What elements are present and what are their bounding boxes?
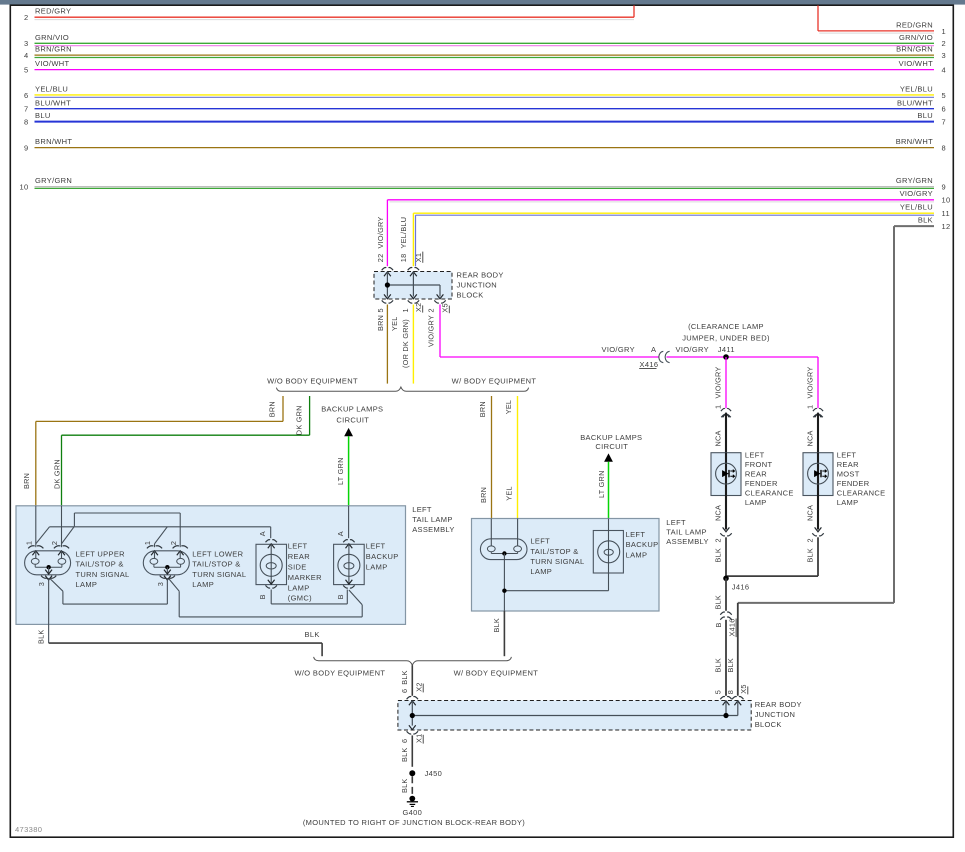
svg-text:LEFT LOWER: LEFT LOWER	[192, 550, 243, 559]
svg-text:BACKUP: BACKUP	[366, 552, 399, 561]
bus pin1 lamps to side marker A	[50, 526, 271, 528]
arrow backup lamps circuit (box1)	[344, 428, 353, 436]
svg-text:BLK: BLK	[37, 629, 46, 644]
wire YEL/BLU (right 11) horizontal	[413, 212, 934, 214]
svg-text:TURN SIGNAL: TURN SIGNAL	[530, 557, 584, 566]
wire pin2 lower lamp drop	[179, 513, 181, 547]
svg-text:CLEARANCE: CLEARANCE	[745, 489, 794, 498]
wire YEL/BLU vertical drop to junction block	[412, 213, 414, 266]
lamp rect LEFT	[334, 544, 365, 584]
lamp internal wiring	[153, 564, 155, 567]
wire BRN/GRN (left 4 / right 3)	[35, 54, 935, 56]
svg-text:7: 7	[24, 105, 29, 114]
svg-text:BLK: BLK	[806, 548, 815, 563]
lower block entry connector pin 5	[720, 697, 731, 700]
svg-text:18: 18	[399, 254, 408, 263]
svg-text:BLK: BLK	[726, 658, 735, 673]
svg-text:W/ BODY EQUIPMENT: W/ BODY EQUIPMENT	[454, 669, 539, 678]
svg-text:2: 2	[806, 538, 815, 542]
svg-text:2: 2	[169, 541, 178, 545]
wire NCA below U3 left rear most fender clearance lamp	[817, 496, 819, 530]
wire LT GRN into box1	[348, 436, 350, 506]
wire side marker B down to bus	[270, 590, 272, 604]
wire VIO/GRY continues to J411	[667, 356, 819, 358]
svg-text:X5: X5	[441, 303, 450, 312]
svg-text:REAR BODY: REAR BODY	[755, 700, 802, 709]
svg-text:J450: J450	[425, 769, 443, 778]
wire VIO/GRY (right 10) horizontal	[387, 199, 934, 201]
svg-text:REAR: REAR	[745, 470, 767, 479]
svg-text:6: 6	[400, 689, 409, 693]
upper block pin 2 exit	[437, 294, 444, 298]
svg-text:BLOCK: BLOCK	[457, 291, 484, 300]
lamp pin3 connector	[45, 570, 52, 574]
connector 2 BLK below U3 left rear most fender clearance lamp	[815, 527, 822, 531]
svg-text:LAMP: LAMP	[192, 580, 214, 589]
svg-text:FRONT: FRONT	[745, 460, 773, 469]
ground bus between lamps	[63, 603, 167, 605]
wire VIO/WHT (left 5 / right 4)	[35, 69, 935, 71]
rear body junction block (lower)	[398, 701, 751, 731]
lamp pin1 connector	[147, 546, 162, 549]
svg-text:VIO/GRY: VIO/GRY	[602, 345, 635, 354]
svg-text:TURN SIGNAL: TURN SIGNAL	[76, 570, 130, 579]
svg-text:REAR: REAR	[288, 552, 310, 561]
tap diagonal pin1 upper lamp	[36, 527, 50, 544]
tap diagonal pin1 lower lamp	[155, 527, 168, 544]
wire LT GRN pin into backup (box2)	[608, 519, 610, 556]
svg-text:NCA: NCA	[806, 505, 815, 521]
lamp internal wiring	[34, 564, 36, 567]
svg-text:LEFT: LEFT	[366, 542, 386, 551]
left tail lamp assembly box (w/ body equipment)	[472, 519, 660, 612]
svg-text:VIO/GRY: VIO/GRY	[806, 366, 815, 398]
svg-text:REAR: REAR	[837, 460, 859, 469]
svg-text:LAMP: LAMP	[530, 567, 552, 576]
wire GRN/VIO (left 3 / right 2)	[35, 42, 935, 44]
svg-text:BLK: BLK	[713, 658, 722, 673]
lamp pin2 connector	[54, 546, 69, 549]
svg-text:DK GRN: DK GRN	[52, 459, 61, 489]
svg-text:3: 3	[24, 39, 29, 48]
svg-text:BLU/WHT: BLU/WHT	[897, 98, 933, 107]
svg-text:6: 6	[400, 739, 409, 743]
svg-text:CIRCUIT: CIRCUIT	[595, 442, 628, 451]
svg-text:X1: X1	[414, 253, 423, 262]
svg-text:(MOUNTED TO RIGHT OF JUNCTION: (MOUNTED TO RIGHT OF JUNCTION BLOCK-REAR…	[303, 818, 525, 827]
svg-text:22: 22	[376, 254, 385, 263]
svg-text:LEFT: LEFT	[666, 518, 686, 527]
wire RED/GRY (left 2) horizontal	[35, 16, 635, 18]
svg-text:RED/GRY: RED/GRY	[35, 7, 71, 16]
svg-text:1: 1	[24, 541, 33, 545]
lamp pin A connector	[343, 540, 354, 543]
splice J416 dot	[723, 576, 729, 582]
wire BLK dashed to ground	[411, 776, 413, 796]
svg-text:MARKER: MARKER	[288, 573, 322, 582]
svg-text:VIO/GRY: VIO/GRY	[900, 189, 933, 198]
svg-text:ASSEMBLY: ASSEMBLY	[666, 537, 709, 546]
upper block pin 22 entry connector	[382, 268, 393, 271]
lamp filaments (box2)	[487, 546, 495, 552]
wire DK GRN branch w/o body	[309, 396, 311, 435]
ground wire from backup lamp (box2)	[608, 555, 610, 591]
lamp stadium body	[25, 551, 71, 575]
lamp filament oval (box2 backup)	[604, 549, 613, 555]
svg-text:BACKUP LAMPS: BACKUP LAMPS	[580, 433, 642, 442]
wire RED/GRN (right 1) vertical from top border	[817, 5, 819, 31]
svg-text:3: 3	[942, 51, 947, 60]
lamp pin1 connector	[28, 546, 43, 549]
svg-text:X1: X1	[415, 734, 424, 743]
svg-text:W/O BODY EQUIPMENT: W/O BODY EQUIPMENT	[294, 669, 385, 678]
svg-text:473380: 473380	[15, 825, 42, 834]
svg-text:2: 2	[713, 538, 722, 542]
svg-text:1: 1	[143, 541, 152, 545]
svg-text:VIO/GRY: VIO/GRY	[376, 216, 385, 248]
svg-text:G400: G400	[402, 808, 422, 817]
svg-text:A: A	[651, 345, 656, 354]
wire BLK out of box1	[49, 642, 322, 644]
bus pin2 lamps	[62, 526, 75, 544]
wire VIO/GRY jumper to right clearance lamp	[817, 357, 819, 408]
lower block internal wires	[411, 701, 413, 726]
svg-text:1: 1	[942, 27, 947, 36]
svg-text:VIO/WHT: VIO/WHT	[899, 59, 933, 68]
svg-text:YEL/BLU: YEL/BLU	[900, 203, 933, 212]
svg-text:X416: X416	[640, 360, 659, 369]
wire YEL from block pin 1 down to brace	[412, 305, 414, 384]
svg-text:JUMPER, UNDER BED): JUMPER, UNDER BED)	[682, 334, 770, 343]
svg-text:BRN/GRN: BRN/GRN	[896, 45, 933, 54]
connector X416 inline on VIO/GRY	[659, 351, 664, 362]
wire YEL pin into lamp (box2)	[517, 519, 519, 546]
upper block pin 1 exit	[410, 294, 417, 298]
svg-text:NCA: NCA	[806, 430, 815, 446]
splice J411 dot	[723, 354, 729, 360]
brace W/O / W/ BODY EQUIPMENT (lower)	[314, 657, 512, 665]
wire NCA into U2 left front rear fender clearance lamp	[725, 413, 727, 453]
ground bus (box2)	[504, 590, 608, 592]
svg-text:BLU: BLU	[917, 111, 933, 120]
svg-text:TAIL LAMP: TAIL LAMP	[666, 528, 706, 537]
svg-text:BRN: BRN	[267, 401, 276, 417]
wire BLK from right clearance lamp	[817, 537, 819, 576]
svg-text:BRN/WHT: BRN/WHT	[35, 137, 72, 146]
bus marker B to backup B	[271, 603, 347, 605]
lamp pin A connector	[266, 540, 277, 543]
lamp rect LEFT	[256, 544, 287, 584]
svg-text:9: 9	[942, 183, 947, 192]
svg-text:BLU: BLU	[35, 111, 51, 120]
wire BLK from left clearance lamp to J416	[725, 537, 727, 578]
svg-text:BRN: BRN	[22, 473, 31, 489]
svg-text:FENDER: FENDER	[745, 479, 778, 488]
wire BLK X416 to junction block pin 5	[725, 620, 727, 696]
svg-text:CLEARANCE: CLEARANCE	[837, 489, 886, 498]
svg-text:A: A	[336, 531, 345, 536]
svg-text:1: 1	[401, 308, 410, 312]
svg-text:B: B	[258, 594, 267, 599]
wire BLK vertical into junction block pin 8	[737, 603, 739, 696]
svg-text:YEL: YEL	[504, 400, 513, 415]
svg-text:YEL/BLU: YEL/BLU	[900, 85, 933, 94]
svg-text:BLOCK: BLOCK	[755, 720, 782, 729]
wire side marker A from bus	[270, 527, 272, 538]
svg-text:YEL/BLU: YEL/BLU	[35, 85, 68, 94]
svg-text:BRN: BRN	[376, 315, 385, 331]
lower block exit connector pin 6	[409, 725, 416, 729]
upper block junction dot	[385, 282, 390, 287]
lamp circle	[260, 554, 282, 576]
svg-text:BRN/GRN: BRN/GRN	[35, 45, 72, 54]
svg-text:TAIL LAMP: TAIL LAMP	[412, 515, 452, 524]
lower block entry connector pin 6	[407, 697, 418, 700]
svg-text:LAMP: LAMP	[76, 580, 98, 589]
svg-text:YEL: YEL	[390, 316, 399, 331]
svg-text:BLK: BLK	[918, 216, 933, 225]
svg-text:2: 2	[427, 308, 436, 312]
svg-text:4: 4	[24, 51, 29, 60]
svg-text:BRN: BRN	[478, 401, 487, 417]
wire VIO/GRY jumper drop left clearance lamp	[725, 357, 727, 408]
lamp filament oval	[344, 563, 354, 569]
svg-text:NCA: NCA	[713, 430, 722, 446]
svg-text:5: 5	[942, 91, 947, 100]
svg-text:GRY/GRN: GRY/GRN	[35, 176, 72, 185]
lamp box U2 left front rear fender clearance lamp	[711, 453, 741, 496]
svg-text:8: 8	[24, 118, 29, 127]
connector 2 BLK below U2 left front rear fender clearance lamp	[723, 527, 730, 531]
lamp filament oval	[266, 563, 276, 569]
svg-text:CIRCUIT: CIRCUIT	[336, 416, 369, 425]
lamp circle U2 left front rear fender clearance lamp	[716, 463, 737, 484]
wire BRN from block pin 5 down to brace	[386, 305, 388, 384]
wire YEL/BLU (left 6 / right 5)	[35, 94, 935, 96]
svg-text:JUNCTION: JUNCTION	[755, 710, 796, 719]
svg-text:X5: X5	[739, 684, 748, 693]
svg-text:X416: X416	[727, 618, 736, 636]
svg-text:NCA: NCA	[713, 505, 722, 521]
svg-text:BLK: BLK	[400, 778, 409, 793]
svg-text:2: 2	[50, 541, 59, 545]
svg-text:DK GRN: DK GRN	[295, 405, 304, 435]
svg-text:BLK: BLK	[713, 595, 722, 610]
wire backup lamp A from LT GRN	[348, 506, 350, 538]
svg-text:TURN SIGNAL: TURN SIGNAL	[192, 570, 246, 579]
lamp box U3 left rear most fender clearance lamp	[803, 453, 833, 496]
lamp pin2 connector	[173, 546, 188, 549]
svg-text:10: 10	[942, 196, 951, 205]
svg-text:YEL/BLU: YEL/BLU	[399, 217, 408, 249]
lamp circle	[338, 554, 360, 576]
lamp stadium body	[143, 551, 189, 575]
svg-text:11: 11	[942, 209, 950, 218]
svg-text:5: 5	[713, 690, 722, 694]
svg-text:B: B	[336, 594, 345, 599]
svg-text:1: 1	[806, 405, 815, 409]
lamp tail/stop & turn signal (box2) stadium	[480, 539, 527, 560]
lamp pin B connector	[346, 580, 353, 584]
wire VIO/GRY from block pin 2	[439, 305, 441, 358]
svg-text:BLK: BLK	[305, 630, 320, 639]
svg-text:J416: J416	[732, 583, 750, 592]
wire pin1 upper lamp from box top	[35, 506, 37, 547]
svg-text:12: 12	[942, 222, 951, 231]
svg-text:FENDER: FENDER	[837, 479, 870, 488]
svg-text:X2: X2	[414, 303, 423, 312]
svg-text:VIO/GRY: VIO/GRY	[427, 315, 436, 347]
ground wire upper lamp pin3 down	[48, 578, 50, 643]
svg-text:LEFT: LEFT	[412, 505, 432, 514]
upper block internal wires	[386, 272, 388, 297]
svg-text:10: 10	[19, 183, 28, 192]
lamp filaments	[150, 558, 158, 564]
svg-text:2: 2	[24, 13, 29, 22]
svg-text:X2: X2	[415, 682, 424, 691]
svg-text:BLK: BLK	[713, 548, 722, 563]
lower block junction dots	[410, 713, 415, 718]
tap diagonal pin3 lower lamp	[169, 579, 180, 592]
wire BRN/WHT (left 9 / right 8)	[35, 147, 935, 149]
wire BRN branch w/o body	[282, 396, 284, 421]
svg-text:6: 6	[24, 91, 29, 100]
tap diagonal pin3 upper lamp	[50, 579, 63, 592]
LED symbol U3 left rear most fender clearance lamp	[814, 470, 821, 477]
upper block pin 18 entry connector	[408, 268, 419, 271]
lamp circle U3 left rear most fender clearance lamp	[808, 463, 829, 484]
svg-text:4: 4	[942, 66, 947, 75]
svg-text:BACKUP LAMPS: BACKUP LAMPS	[321, 404, 383, 413]
wire RED/GRN (right 1) horizontal	[818, 30, 934, 32]
svg-text:BLK: BLK	[400, 747, 409, 762]
lamp pin3 connector	[164, 570, 171, 574]
svg-text:TAIL/STOP &: TAIL/STOP &	[530, 547, 578, 556]
svg-text:LEFT: LEFT	[288, 542, 308, 551]
wire VIO/GRY vertical drop to junction block	[386, 200, 388, 266]
svg-text:3: 3	[37, 582, 46, 586]
svg-text:LAMP: LAMP	[626, 550, 648, 559]
svg-text:LT GRN: LT GRN	[336, 457, 345, 485]
wire BRN branch w/ body	[491, 396, 493, 519]
wire NCA into U3 left rear most fender clearance lamp	[817, 413, 819, 453]
brace W/O / W/ BODY EQUIPMENT (upper)	[276, 387, 528, 391]
left tail lamp assembly box (w/o body equipment)	[16, 506, 406, 625]
wire pin2 upper lamp from box top	[61, 506, 63, 547]
arrow backup lamps circuit (box2)	[604, 453, 613, 461]
wire BRN pin into lamp (box2)	[490, 519, 492, 546]
svg-text:(OR DK GRN): (OR DK GRN)	[401, 319, 410, 368]
connector X416 inline on BLK	[720, 612, 731, 615]
svg-text:BLU/WHT: BLU/WHT	[35, 98, 71, 107]
svg-text:8: 8	[942, 144, 947, 153]
svg-text:YEL: YEL	[505, 486, 514, 501]
svg-text:5: 5	[24, 66, 29, 75]
svg-text:BACKUP: BACKUP	[626, 540, 659, 549]
wire BLU/WHT (left 7 / right 6)	[35, 108, 935, 110]
ground wire from tail lamp (box2)	[503, 554, 505, 611]
svg-text:JUNCTION: JUNCTION	[457, 281, 498, 290]
lamp circle (box2 backup)	[598, 541, 620, 563]
svg-text:9: 9	[24, 144, 29, 153]
svg-text:SIDE: SIDE	[288, 563, 307, 572]
svg-text:LAMP: LAMP	[745, 498, 767, 507]
svg-text:GRN/VIO: GRN/VIO	[35, 33, 69, 42]
svg-text:B: B	[714, 622, 723, 627]
wire BLK lower horizontal to junction block	[738, 602, 894, 604]
wire NCA below U2 left front rear fender clearance lamp	[725, 496, 727, 530]
lamp internal ground (box2)	[490, 552, 492, 554]
svg-text:BLK: BLK	[492, 618, 501, 633]
svg-text:MOST: MOST	[837, 470, 860, 479]
svg-text:LT GRN: LT GRN	[597, 470, 606, 498]
svg-text:LEFT: LEFT	[530, 537, 550, 546]
svg-text:3: 3	[156, 582, 165, 586]
svg-text:VIO/GRY: VIO/GRY	[713, 366, 722, 398]
svg-text:LAMP: LAMP	[366, 563, 388, 572]
svg-text:LEFT: LEFT	[626, 530, 646, 539]
clearance lamp U2 left front rear fender clearance lamp connector from VIO/GRY	[721, 408, 731, 411]
svg-text:LEFT: LEFT	[837, 450, 857, 459]
clearance lamp U3 left rear most fender clearance lamp connector from VIO/GRY	[813, 408, 823, 411]
svg-text:J411: J411	[718, 345, 735, 354]
lamp pin B connector	[268, 580, 275, 584]
LED symbol U2 left front rear fender clearance lamp	[722, 470, 729, 477]
svg-text:VIO/WHT: VIO/WHT	[35, 59, 69, 68]
svg-text:BRN/WHT: BRN/WHT	[896, 137, 933, 146]
svg-text:(GMC): (GMC)	[288, 594, 312, 603]
wire RED/GRY vertical to top border	[633, 5, 635, 17]
splice J450 dot	[409, 770, 415, 776]
wire BLK from lower block to J450	[411, 735, 413, 766]
svg-text:TAIL/STOP &: TAIL/STOP &	[192, 560, 240, 569]
svg-text:TAIL/STOP &: TAIL/STOP &	[76, 560, 124, 569]
wire GRY/GRN (left 10 / right 9)	[35, 186, 935, 188]
svg-text:BLK: BLK	[400, 670, 409, 685]
rear body junction block (upper)	[374, 272, 452, 300]
svg-text:(CLEARANCE LAMP: (CLEARANCE LAMP	[688, 322, 764, 331]
svg-text:BRN: BRN	[479, 487, 488, 503]
tap diagonal backup lamp B	[349, 590, 362, 605]
lower block entry connector pin 8	[732, 697, 743, 700]
svg-text:LEFT UPPER: LEFT UPPER	[76, 550, 126, 559]
wire BLK right-edge vertical	[893, 226, 895, 603]
wire YEL branch w/ body	[517, 396, 519, 519]
svg-text:W/ BODY EQUIPMENT: W/ BODY EQUIPMENT	[452, 376, 537, 385]
svg-text:5: 5	[376, 308, 385, 312]
top browser bar	[0, 0, 965, 5]
svg-text:A: A	[258, 531, 267, 536]
svg-text:REAR BODY: REAR BODY	[457, 271, 504, 280]
svg-text:2: 2	[942, 39, 947, 48]
svg-text:LAMP: LAMP	[837, 498, 859, 507]
wire BLK J416 to X416 connector	[725, 578, 727, 611]
wire BLU (left 8 / right 7)	[35, 121, 935, 123]
svg-text:8: 8	[726, 690, 735, 694]
svg-text:VIO/GRY: VIO/GRY	[676, 345, 709, 354]
upper block pin 5 exit	[384, 294, 391, 298]
ground G400 symbol	[409, 796, 415, 802]
svg-text:W/O BODY EQUIPMENT: W/O BODY EQUIPMENT	[267, 376, 358, 385]
lamp left backup (box2) rect	[593, 531, 623, 574]
wire BLK out of box2	[503, 611, 505, 656]
svg-text:LAMP: LAMP	[288, 583, 310, 592]
svg-text:GRY/GRN: GRY/GRN	[896, 176, 933, 185]
ground wire lower lamp pin3	[166, 578, 168, 604]
wire LT GRN into box2	[608, 462, 610, 519]
svg-text:1: 1	[713, 405, 722, 409]
svg-text:RED/GRN: RED/GRN	[896, 20, 933, 29]
